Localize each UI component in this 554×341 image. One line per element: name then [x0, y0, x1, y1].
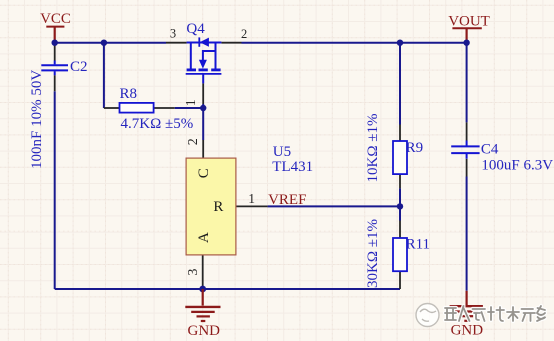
- junction node GND left: [199, 286, 206, 293]
- pin R9 bottom: [399, 174, 401, 188]
- watermark text 嵌入式技术开发 (simulated strokes): [445, 306, 546, 321]
- svg-text:R: R: [213, 199, 223, 215]
- svg-text:TL431: TL431: [272, 159, 313, 175]
- wire left vertical from C2 down to bottom rail: [54, 91, 56, 289]
- svg-text:C2: C2: [70, 59, 88, 75]
- svg-text:VOUT: VOUT: [448, 13, 490, 29]
- svg-text:C: C: [196, 168, 212, 178]
- junction node VOUT: [463, 40, 469, 46]
- wire C4 bottom to GND: [466, 177, 468, 291]
- svg-text:C4: C4: [481, 141, 499, 157]
- wire gate node vertical: [202, 104, 204, 140]
- wire R9 top: [399, 43, 401, 125]
- pin R11 bottom: [399, 271, 401, 289]
- svg-text:GND: GND: [188, 323, 221, 339]
- pin C2 top: [54, 43, 56, 61]
- power port VOUT: [448, 13, 490, 42]
- junction node VREF: [397, 203, 403, 209]
- transistor Q4 PMOS: [187, 43, 222, 84]
- pin U5 pin3 bottom: [202, 255, 204, 288]
- svg-text:2: 2: [241, 27, 247, 41]
- capacitor C4: [451, 141, 499, 159]
- watermark logo circle: [416, 304, 439, 327]
- svg-text:R11: R11: [406, 236, 430, 252]
- pin R11 top: [399, 221, 401, 239]
- resistor R11: [393, 236, 430, 271]
- wire bottom rail: [55, 288, 400, 290]
- svg-text:Q4: Q4: [186, 21, 205, 37]
- svg-text:3: 3: [170, 27, 176, 41]
- pin Q4 pin2: [221, 42, 241, 44]
- svg-text:100uF 6.3V: 100uF 6.3V: [481, 157, 553, 173]
- power port VCC: [40, 11, 71, 43]
- svg-text:1: 1: [248, 191, 255, 206]
- Q4 body diode: [198, 37, 200, 46]
- junction node R9 top: [397, 40, 403, 46]
- wire C4 top: [466, 43, 468, 123]
- svg-text:R9: R9: [406, 140, 424, 156]
- junction node VCC: [52, 40, 58, 46]
- wire VREF net: [268, 205, 400, 207]
- svg-text:A: A: [196, 232, 212, 243]
- pin U5 pin2 top: [202, 140, 204, 158]
- ground right: [450, 291, 483, 321]
- svg-text:U5: U5: [273, 144, 291, 160]
- svg-text:VCC: VCC: [40, 11, 71, 27]
- pin C4 bottom: [466, 159, 468, 177]
- Q4 source arrow: [199, 60, 207, 69]
- pin R8 right: [154, 107, 175, 109]
- Q4 gate plate: [186, 73, 222, 75]
- wire R9 bottom to R11 top: [399, 188, 401, 220]
- svg-text:VREF: VREF: [268, 192, 306, 208]
- svg-text:GND: GND: [451, 322, 484, 338]
- wire R8 right to gate node: [175, 107, 204, 109]
- capacitor C2: [41, 59, 87, 75]
- svg-text:100nF 10% 50V: 100nF 10% 50V: [29, 70, 45, 169]
- pin C2 bottom: [54, 75, 56, 91]
- pin R9 top: [399, 125, 401, 142]
- svg-text:1: 1: [184, 99, 199, 106]
- wire top rail VCC to VOUT: [55, 42, 467, 44]
- svg-text:30KΩ ±1%: 30KΩ ±1%: [365, 219, 381, 288]
- resistor R9: [393, 140, 423, 174]
- pin Q4 pin1 gate: [202, 83, 204, 104]
- svg-text:R8: R8: [120, 86, 138, 102]
- svg-text:2: 2: [186, 138, 201, 145]
- pin U5 pin1 right: [236, 205, 268, 207]
- wire R8 branch vertical: [103, 43, 105, 108]
- ground left: [185, 289, 220, 321]
- resistor R8: [120, 86, 154, 113]
- op-amp U5 TL431 body: [186, 158, 236, 255]
- pin Q4 pin3: [166, 42, 187, 44]
- junction node gate: [200, 105, 206, 111]
- Q4 channel bars: [187, 69, 221, 72]
- svg-text:3: 3: [186, 269, 201, 276]
- junction node R8 branch: [101, 40, 107, 46]
- svg-text:10KΩ ±1%: 10KΩ ±1%: [365, 114, 381, 183]
- svg-text:4.7KΩ ±5%: 4.7KΩ ±5%: [121, 116, 194, 132]
- pin R8 left: [104, 107, 120, 109]
- pin C4 top: [466, 122, 468, 140]
